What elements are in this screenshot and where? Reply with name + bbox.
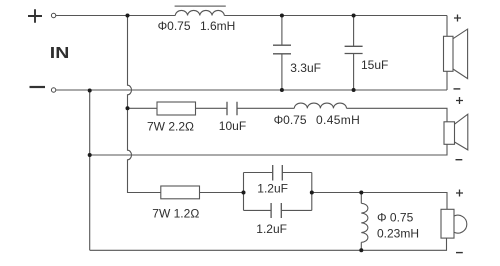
- svg-text:7W 1.2Ω: 7W 1.2Ω: [152, 206, 199, 220]
- capacitor C1 3.3uF top lead: [281, 16, 283, 46]
- speaker SP3 plus sign: [456, 190, 463, 197]
- speaker SP2 cone: [455, 114, 468, 150]
- cap block right riser: [311, 173, 313, 211]
- wire L2 to speaker SP2: [347, 108, 448, 122]
- input minus terminal: [30, 86, 46, 88]
- junction node minus rail / C1: [280, 88, 284, 92]
- speaker SP1 cone: [453, 29, 468, 79]
- svg-text:0.45mH: 0.45mH: [316, 113, 360, 127]
- inductor L3 coil vertical: [361, 203, 368, 242]
- capacitor C5 plates: [271, 203, 281, 218]
- svg-text:1.2uF: 1.2uF: [257, 181, 288, 195]
- inductor L1 core bar: [175, 5, 226, 7]
- capacitor C2 15uF top lead: [353, 16, 355, 47]
- speaker SP1 bottom lead: [446, 71, 448, 90]
- speaker SP2 plus sign: [456, 97, 463, 104]
- junction node L3 bottom: [359, 248, 363, 252]
- capacitor C1 bottom lead: [281, 54, 283, 90]
- junction node cap block left: [242, 191, 246, 195]
- svg-text:0.23mH: 0.23mH: [377, 226, 419, 240]
- wire C3 to L2: [237, 107, 294, 109]
- capacitor C3 10uF plates: [227, 102, 237, 116]
- capacitor C4 1.2uF upper branch left: [244, 172, 273, 174]
- capacitor C5 1.2uF lower branch left: [244, 209, 272, 211]
- junction node L3 top: [359, 191, 363, 195]
- svg-text:Φ0.75: Φ0.75: [274, 113, 307, 127]
- svg-text:1.6mH: 1.6mH: [200, 19, 235, 33]
- wire cap block to L3 node: [312, 193, 447, 210]
- junction node top rail / C1: [280, 14, 284, 18]
- svg-text:3.3uF: 3.3uF: [290, 61, 321, 75]
- capacitor C4 plates: [273, 165, 283, 181]
- junction node top rail / C2: [352, 14, 356, 18]
- wire midrange branch left: [128, 107, 158, 109]
- inductor L2 coil: [294, 103, 346, 108]
- wire R1 to C3: [196, 107, 228, 109]
- input minus terminal circle: [51, 88, 55, 92]
- svg-text:Φ 0.75: Φ 0.75: [377, 210, 414, 224]
- svg-text:1.2uF: 1.2uF: [256, 222, 287, 236]
- svg-text:15uF: 15uF: [361, 58, 388, 72]
- junction node minus rail / C2: [352, 88, 356, 92]
- junction node top rail / feed: [126, 14, 130, 18]
- wire minus rail / section1 bottom: [56, 89, 447, 91]
- speaker SP2 minus sign: [456, 159, 463, 161]
- capacitor C2 plates: [345, 46, 363, 53]
- svg-text:7W 2.2Ω: 7W 2.2Ω: [147, 120, 194, 134]
- input plus terminal: [28, 9, 42, 22]
- cap block left riser: [243, 173, 245, 211]
- junction node feed / midrange branch: [126, 106, 130, 110]
- svg-text:10uF: 10uF: [219, 119, 246, 133]
- wire vertical line x=90: [89, 90, 91, 250]
- junction node minus rail / x90: [88, 89, 92, 93]
- junction node cap block right: [310, 191, 314, 195]
- wire bottom rail: [90, 238, 447, 250]
- capacitor C2 bottom lead: [353, 54, 355, 91]
- svg-text:Φ0.75: Φ0.75: [158, 19, 191, 33]
- capacitor C1 plates: [273, 45, 291, 54]
- resistor R2 7W 1.2 ohm body: [161, 186, 200, 199]
- speaker SP3 dome: [454, 215, 467, 233]
- inductor L3 bottom lead: [360, 242, 362, 250]
- speaker SP1 minus sign: [454, 88, 461, 90]
- capacitor C5 lower branch right: [281, 209, 312, 211]
- speaker SP1 top lead: [446, 16, 448, 37]
- wire top rail left: [56, 15, 175, 17]
- speaker SP1 body: [444, 36, 454, 71]
- capacitor C4 upper branch right: [282, 172, 312, 174]
- junction node x90 / section2 return: [88, 153, 92, 157]
- wire R2 to cap block: [200, 192, 244, 194]
- wire top rail right: [224, 15, 447, 17]
- inductor L3 top lead: [360, 193, 362, 204]
- resistor R1 7W 2.2 ohm body: [157, 102, 196, 115]
- speaker SP3 minus sign: [456, 252, 463, 254]
- svg-text:IN: IN: [50, 45, 70, 62]
- speaker SP1 plus sign: [454, 15, 461, 22]
- wire vertical feed line x=127.5 with crossover hops: [128, 16, 161, 193]
- inductor L1 coil: [175, 10, 224, 15]
- speaker SP3 body: [441, 209, 454, 238]
- wire section2 return: [90, 144, 447, 155]
- input plus terminal circle: [51, 13, 55, 17]
- speaker SP2 body: [444, 122, 455, 145]
